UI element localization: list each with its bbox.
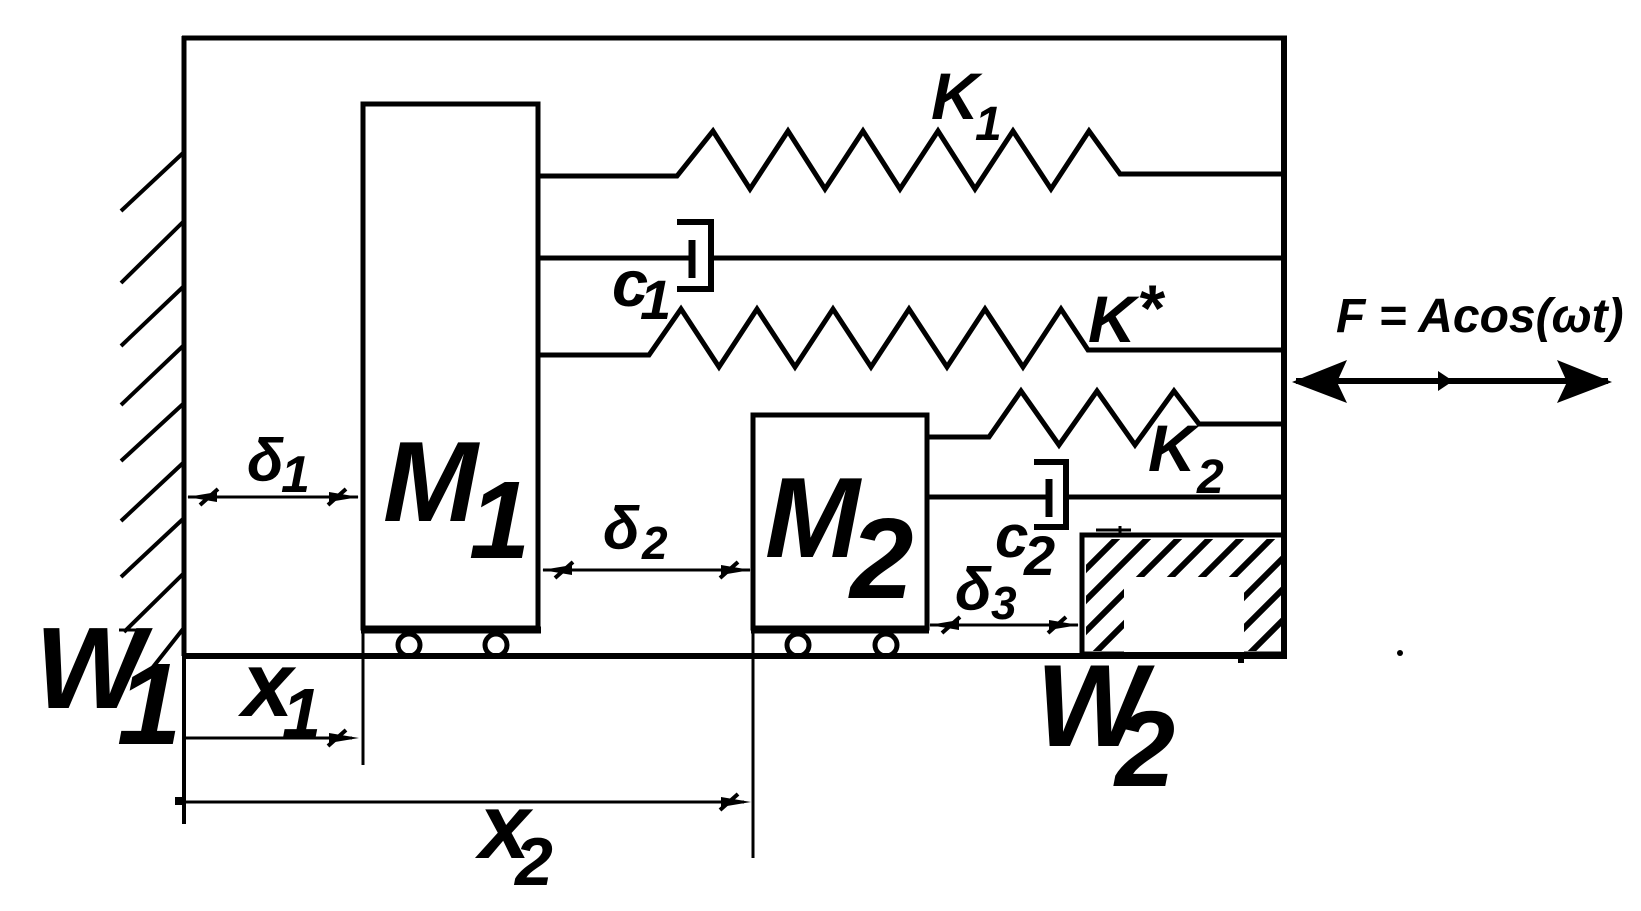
svg-text:2: 2: [1023, 524, 1055, 587]
svg-text:F = Acos(ωt): F = Acos(ωt): [1336, 290, 1624, 343]
svg-text:2: 2: [513, 824, 553, 900]
svg-text:1: 1: [469, 459, 530, 582]
svg-text:1: 1: [282, 674, 321, 752]
svg-text:2: 2: [641, 517, 668, 569]
svg-text:2: 2: [1196, 451, 1224, 504]
svg-text:M: M: [383, 419, 480, 546]
svg-text:K: K: [1148, 411, 1200, 485]
svg-text:M: M: [765, 455, 862, 582]
svg-text:*: *: [1137, 271, 1166, 345]
svg-text:2: 2: [848, 496, 913, 623]
svg-text:δ: δ: [247, 427, 284, 494]
svg-text:1: 1: [117, 639, 182, 769]
svg-text:δ: δ: [955, 556, 992, 623]
svg-text:1: 1: [975, 98, 1002, 151]
svg-text:1: 1: [640, 268, 671, 331]
svg-text:3: 3: [991, 577, 1017, 629]
svg-text:K: K: [1088, 282, 1140, 356]
svg-text:2: 2: [1113, 688, 1175, 809]
svg-text:δ: δ: [603, 495, 640, 562]
svg-text:1: 1: [281, 446, 310, 504]
